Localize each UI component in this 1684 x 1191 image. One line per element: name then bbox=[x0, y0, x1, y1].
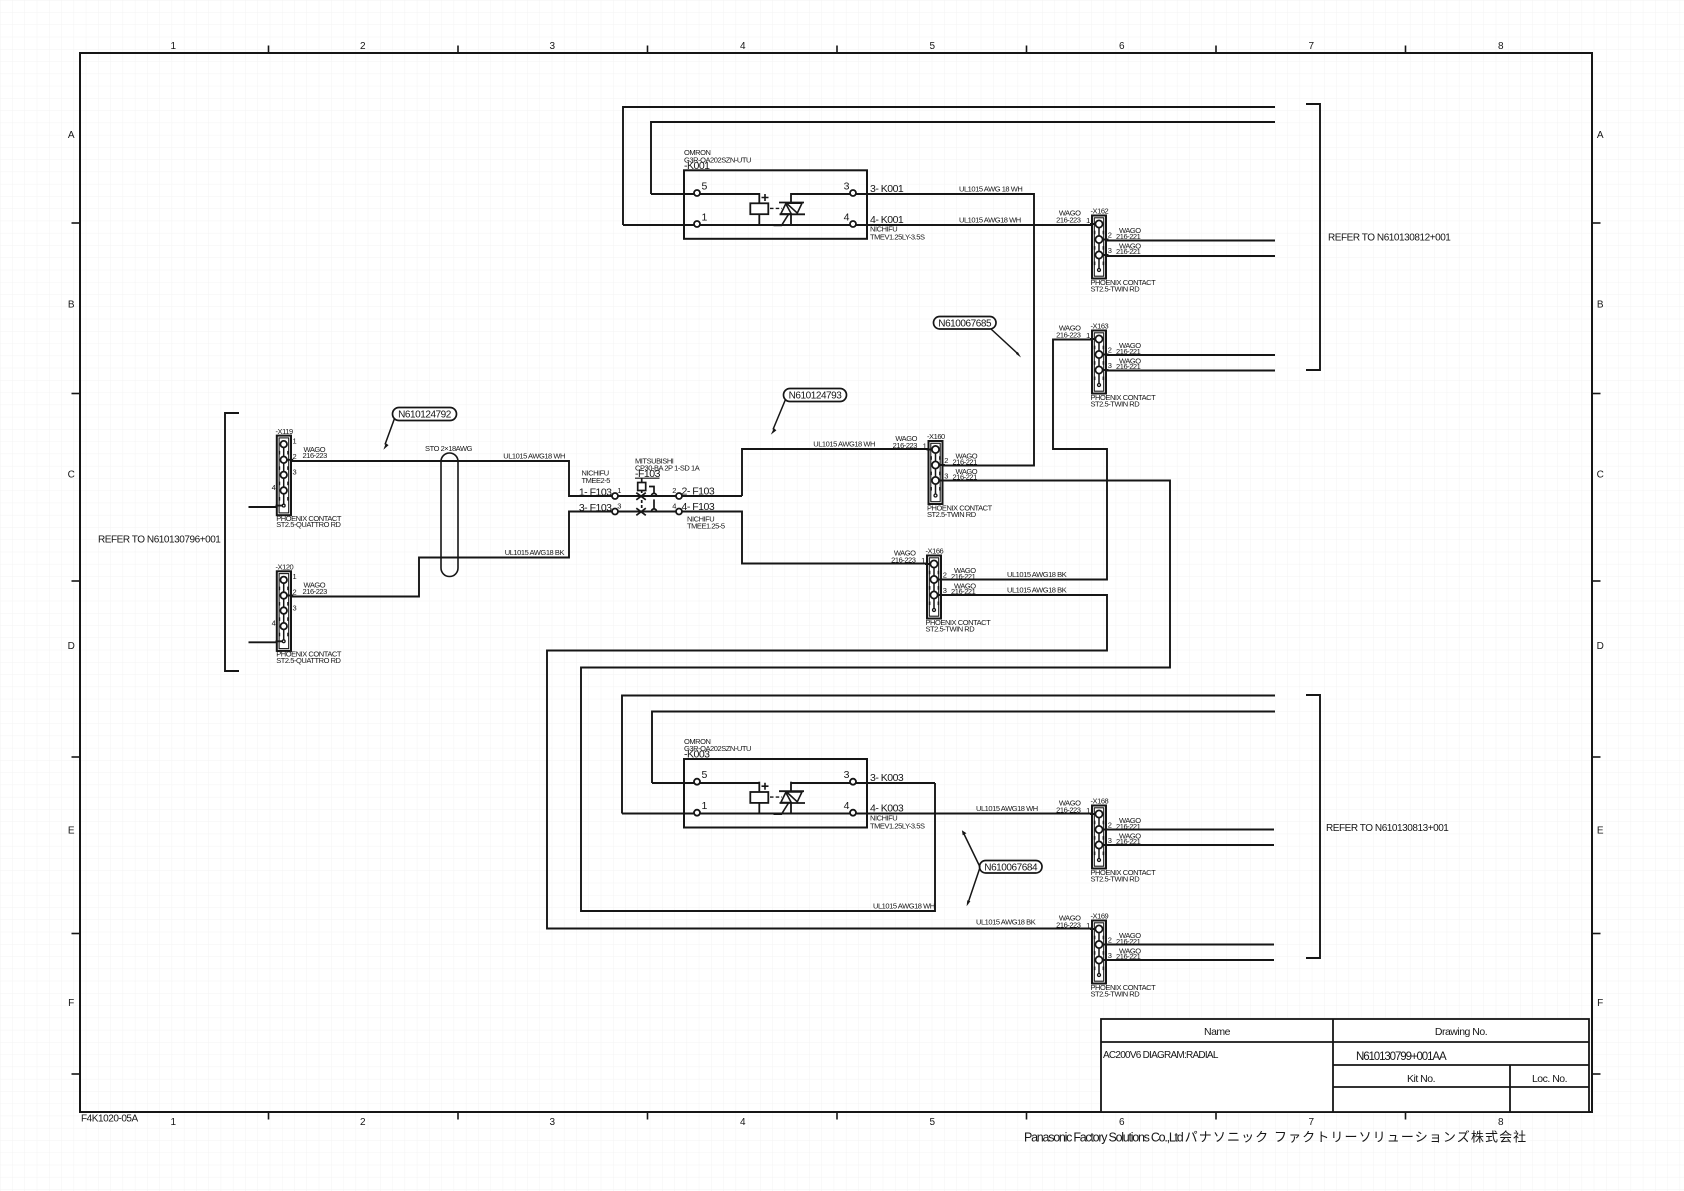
svg-text:-K003: -K003 bbox=[684, 749, 710, 761]
svg-text:N610067685: N610067685 bbox=[938, 319, 992, 330]
bracket top right REFER group bbox=[1306, 104, 1320, 370]
svg-text:7: 7 bbox=[1308, 41, 1314, 52]
label oval N610124792 bbox=[383, 408, 456, 450]
circuit protector F103 bbox=[636, 479, 656, 516]
svg-text:3: 3 bbox=[617, 502, 621, 511]
wire X163 pin3 bbox=[1107, 370, 1275, 372]
svg-text:UL1015 AWG18 WH: UL1015 AWG18 WH bbox=[959, 216, 1021, 225]
connector X160 bbox=[893, 434, 993, 519]
wire X162 pin3 bbox=[1107, 255, 1275, 257]
wire X166 pin3 net to X169 pin1 bbox=[547, 595, 1107, 929]
svg-text:UL1015 AWG18 WH: UL1015 AWG18 WH bbox=[813, 440, 875, 449]
svg-text:2: 2 bbox=[672, 486, 676, 495]
svg-text:4: 4 bbox=[672, 502, 676, 511]
svg-text:4- F103: 4- F103 bbox=[682, 501, 715, 513]
connector X166 bbox=[891, 549, 991, 634]
wire X163 pin2 bbox=[1107, 354, 1275, 356]
label oval N610067684 bbox=[962, 830, 1042, 906]
wire K003 pin1 row to X168 pin1 bbox=[622, 813, 1092, 815]
svg-text:F4K1020-05A: F4K1020-05A bbox=[81, 1114, 139, 1125]
connector X120 bbox=[272, 571, 342, 665]
svg-text:3: 3 bbox=[549, 1117, 555, 1128]
svg-text:7: 7 bbox=[1308, 1117, 1314, 1128]
svg-text:3- F103: 3- F103 bbox=[579, 502, 612, 514]
svg-text:1: 1 bbox=[170, 41, 176, 52]
wire X163 pin1 to X166 pin2 bbox=[942, 340, 1107, 580]
svg-text:REFER TO N610130796+001: REFER TO N610130796+001 bbox=[98, 535, 221, 546]
svg-text:6: 6 bbox=[1119, 1117, 1125, 1128]
svg-text:Drawing No.: Drawing No. bbox=[1435, 1026, 1487, 1038]
wire K001 pin1 net top bbox=[623, 107, 1275, 225]
svg-text:TMEE1.25-5: TMEE1.25-5 bbox=[687, 522, 725, 531]
svg-text:UL1015 AWG 18 WH: UL1015 AWG 18 WH bbox=[959, 185, 1022, 194]
svg-text:B: B bbox=[68, 300, 75, 311]
svg-text:TMEV1.25LY-3.5S: TMEV1.25LY-3.5S bbox=[870, 233, 925, 242]
svg-text:UL1015 AWG18 BK: UL1015 AWG18 BK bbox=[505, 548, 565, 557]
wire K003 pin5 row bbox=[652, 782, 759, 784]
svg-text:-K001: -K001 bbox=[684, 160, 710, 172]
wire X168 pin3 bbox=[1107, 844, 1274, 846]
wire K001 pin1 row to X162 pin1 bbox=[623, 224, 1092, 226]
svg-text:REFER TO N610130813+001: REFER TO N610130813+001 bbox=[1326, 823, 1449, 834]
svg-text:-X163: -X163 bbox=[1091, 322, 1109, 331]
connector X119 bbox=[272, 436, 342, 530]
wire BK X120 to fuse 3-F103 bbox=[292, 512, 926, 597]
wire 3-K001 row to X160 pin2 bbox=[791, 194, 1034, 466]
relay U K001 bbox=[684, 170, 867, 239]
svg-text:-X162: -X162 bbox=[1091, 207, 1109, 216]
relay U K003 bbox=[684, 759, 867, 828]
svg-text:UL1015 AWG18 BK: UL1015 AWG18 BK bbox=[1007, 570, 1067, 579]
wire X119 shield stub bbox=[249, 506, 284, 508]
svg-text:Kit No.: Kit No. bbox=[1407, 1073, 1435, 1085]
svg-text:1- F103: 1- F103 bbox=[579, 487, 612, 499]
svg-text:8: 8 bbox=[1498, 1117, 1504, 1128]
cable shield capsule STO bbox=[441, 453, 458, 577]
wire K003 pin5 net top bbox=[652, 712, 1275, 784]
svg-text:E: E bbox=[1597, 826, 1604, 837]
wire X162 pin2 bbox=[1107, 240, 1275, 242]
bracket bottom right REFER group bbox=[1306, 695, 1320, 958]
wire K003 pin1 net top bbox=[622, 696, 1275, 814]
svg-text:-X166: -X166 bbox=[926, 547, 944, 556]
svg-text:-X120: -X120 bbox=[276, 563, 294, 572]
svg-text:C: C bbox=[1597, 470, 1604, 481]
svg-text:3- K003: 3- K003 bbox=[870, 772, 904, 784]
svg-text:2: 2 bbox=[360, 1117, 366, 1128]
wire X160 pin1 from fuse 2-F103 bbox=[742, 449, 928, 496]
title block bbox=[1101, 1019, 1589, 1112]
wire K001 pin5 row bbox=[651, 193, 759, 195]
svg-text:1: 1 bbox=[170, 1117, 176, 1128]
svg-text:C: C bbox=[68, 470, 75, 481]
wire X168 pin2 bbox=[1107, 829, 1274, 831]
svg-text:3- K001: 3- K001 bbox=[870, 183, 904, 195]
svg-text:N610067684: N610067684 bbox=[984, 863, 1038, 874]
wire WH X119 to fuse 1-F103 bbox=[292, 461, 742, 496]
svg-text:TMEE2-5: TMEE2-5 bbox=[582, 476, 611, 485]
wire 3-K003 row bbox=[791, 782, 935, 784]
svg-text:F: F bbox=[68, 998, 74, 1009]
svg-text:UL1015 AWG18 BK: UL1015 AWG18 BK bbox=[976, 918, 1036, 927]
svg-text:UL1015 AWG18 WH: UL1015 AWG18 WH bbox=[503, 452, 565, 461]
svg-text:6: 6 bbox=[1119, 41, 1125, 52]
svg-text:F: F bbox=[1597, 998, 1603, 1009]
connector X168 bbox=[1056, 799, 1156, 884]
wire X160 pin3 net bbox=[581, 481, 1170, 912]
svg-text:3: 3 bbox=[549, 41, 555, 52]
svg-text:4: 4 bbox=[740, 41, 746, 52]
svg-text:UL1015 AWG18 WH: UL1015 AWG18 WH bbox=[873, 902, 935, 911]
svg-text:TMEV1.25LY-3.5S: TMEV1.25LY-3.5S bbox=[870, 822, 925, 831]
drawing border frame bbox=[80, 53, 1592, 1112]
svg-text:REFER TO N610130812+001: REFER TO N610130812+001 bbox=[1328, 233, 1451, 244]
bracket left REFER group bbox=[225, 413, 239, 671]
svg-text:D: D bbox=[1597, 641, 1604, 652]
svg-text:E: E bbox=[68, 826, 75, 837]
svg-text:8: 8 bbox=[1498, 41, 1504, 52]
svg-text:N610124793: N610124793 bbox=[789, 391, 843, 402]
svg-text:UL1015 AWG18 BK: UL1015 AWG18 BK bbox=[1007, 586, 1067, 595]
svg-text:B: B bbox=[1597, 300, 1604, 311]
svg-text:-X160: -X160 bbox=[927, 432, 945, 441]
svg-text:D: D bbox=[68, 641, 75, 652]
wire X120 shield stub bbox=[249, 641, 284, 643]
svg-text:STO 2×18AWG: STO 2×18AWG bbox=[425, 444, 473, 453]
wire K001 pin5 net top bbox=[651, 122, 1275, 194]
label oval N610067685 bbox=[934, 317, 1022, 358]
svg-text:A: A bbox=[1597, 130, 1604, 141]
connector X169 bbox=[1056, 914, 1156, 999]
svg-text:1: 1 bbox=[617, 486, 621, 495]
svg-text:Panasonic Factory Solutions Co: Panasonic Factory Solutions Co.,Ltd パナソニ… bbox=[1024, 1130, 1527, 1145]
svg-text:-X119: -X119 bbox=[276, 427, 293, 436]
svg-text:UL1015 AWG18 WH: UL1015 AWG18 WH bbox=[976, 804, 1038, 813]
connector X163 bbox=[1056, 324, 1156, 409]
connector X162 bbox=[1056, 209, 1156, 294]
svg-text:N610124792: N610124792 bbox=[398, 410, 452, 421]
svg-text:4: 4 bbox=[740, 1117, 746, 1128]
svg-text:A: A bbox=[68, 130, 75, 141]
svg-text:Name: Name bbox=[1204, 1026, 1231, 1038]
svg-text:-X169: -X169 bbox=[1091, 912, 1109, 921]
svg-text:2: 2 bbox=[360, 41, 366, 52]
svg-text:5: 5 bbox=[929, 41, 935, 52]
svg-text:N610130799+001AA: N610130799+001AA bbox=[1356, 1051, 1447, 1063]
svg-text:AC200V6 DIAGRAM:RADIAL: AC200V6 DIAGRAM:RADIAL bbox=[1103, 1050, 1219, 1061]
svg-text:2- F103: 2- F103 bbox=[682, 486, 715, 498]
label oval N610124793 bbox=[771, 389, 847, 435]
wire X169 pin2 bbox=[1107, 944, 1274, 946]
svg-text:5: 5 bbox=[929, 1117, 935, 1128]
svg-text:-X168: -X168 bbox=[1091, 797, 1109, 806]
svg-text:Loc. No.: Loc. No. bbox=[1532, 1073, 1567, 1085]
wire X169 pin3 bbox=[1107, 959, 1274, 961]
